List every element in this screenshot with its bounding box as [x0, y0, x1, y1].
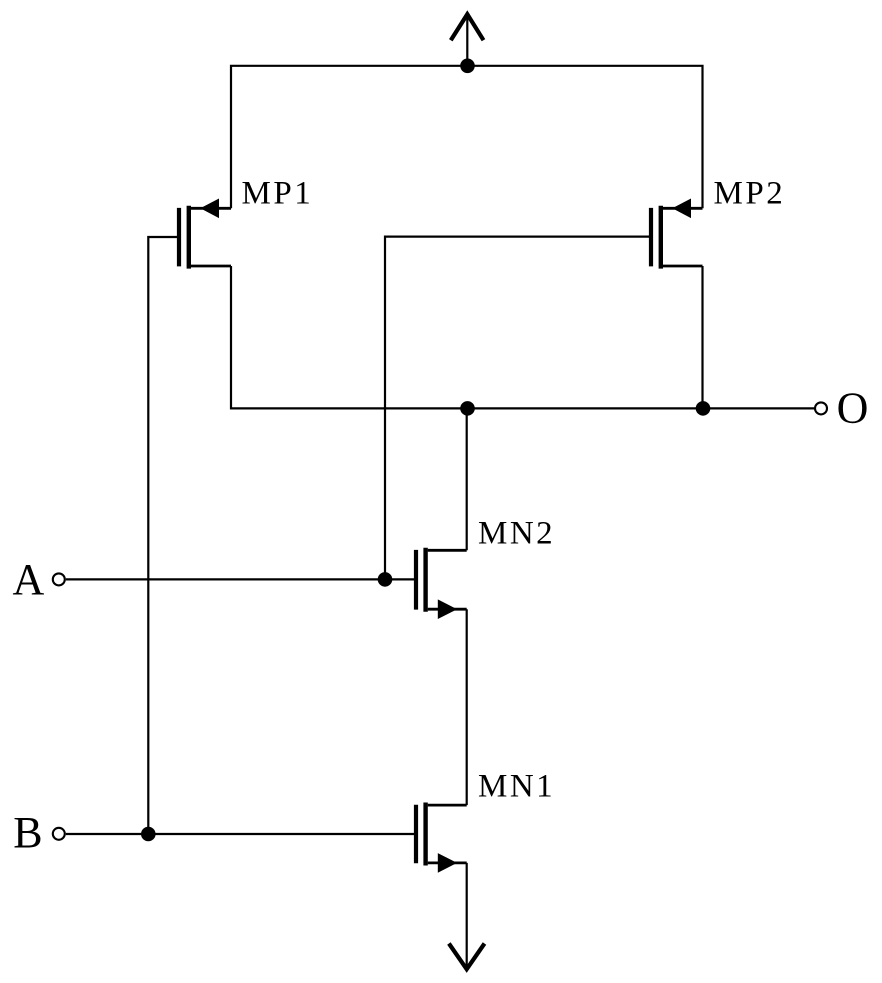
- svg-text:O: O: [837, 384, 869, 433]
- svg-text:MN2: MN2: [478, 516, 555, 552]
- svg-text:B: B: [13, 808, 42, 857]
- svg-text:MP1: MP1: [242, 175, 314, 211]
- svg-text:A: A: [13, 555, 45, 604]
- svg-text:MP2: MP2: [714, 175, 786, 211]
- svg-text:MN1: MN1: [478, 769, 555, 805]
